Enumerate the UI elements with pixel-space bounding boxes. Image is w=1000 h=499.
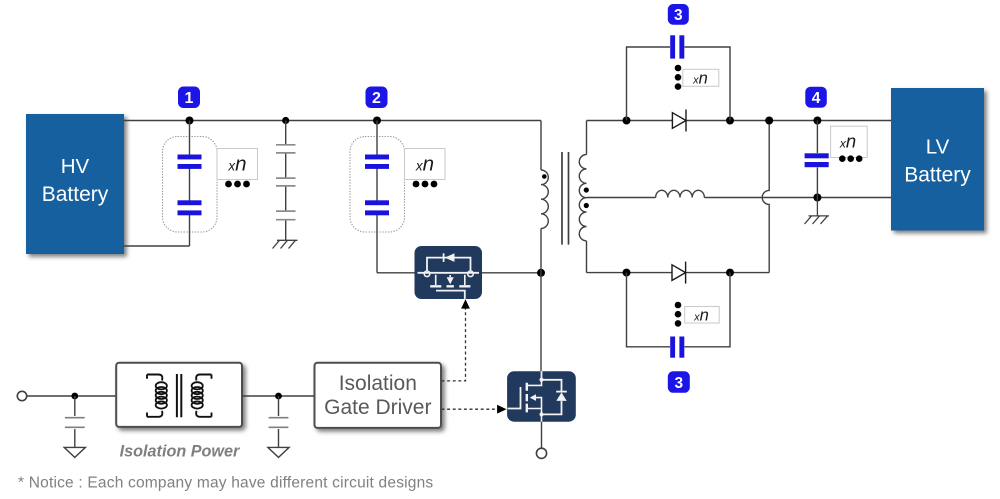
- isolation transformer T2 left coil: [147, 375, 167, 417]
- diode D2: [672, 262, 686, 284]
- transformer T1 secondary coil: [579, 155, 586, 241]
- label xn C3 top: [683, 69, 719, 87]
- svg-text:Isolation: Isolation: [339, 372, 417, 395]
- capacitor driver filter: [269, 396, 289, 447]
- label xn C2: [405, 149, 446, 188]
- gate driver U1 box: [315, 363, 442, 428]
- label xn C1: [217, 149, 258, 188]
- arrowhead Q1 gate: [461, 299, 470, 308]
- dashed gate wire Q1: [442, 308, 466, 381]
- transformer T1 secondary dots: [584, 187, 589, 192]
- svg-text:Gate Driver: Gate Driver: [324, 396, 431, 419]
- node junction Q1-T1: [537, 269, 545, 277]
- node 2 junction: [373, 117, 381, 125]
- transformer T1 secondary leads: [586, 121, 588, 273]
- node junction rail top right: [765, 117, 773, 125]
- svg-text:3: 3: [674, 7, 683, 24]
- svg-text:* Notice : Each company may h: * Notice : Each company may have differe…: [18, 475, 433, 492]
- diode D1: [672, 110, 686, 132]
- HV battery: [26, 114, 124, 254]
- dashed gate wire Q2: [442, 408, 498, 410]
- node junction D2 right: [726, 269, 734, 277]
- isolation transformer T2 right coil: [192, 375, 212, 417]
- wire T2 to driver: [242, 395, 315, 397]
- transformer T1 primary lead: [540, 121, 542, 171]
- isolation transformer T2 core: [177, 374, 181, 417]
- terminal input: [17, 391, 26, 400]
- badge 3 top: [668, 4, 689, 25]
- svg-text:4: 4: [812, 90, 821, 107]
- capacitor bank C1: [163, 121, 218, 247]
- svg-text:Battery: Battery: [904, 164, 971, 187]
- ground driver: [268, 447, 289, 457]
- ground input: [64, 447, 85, 457]
- node 4 junction: [813, 117, 821, 125]
- capacitor input filter: [65, 396, 85, 447]
- wire input: [26, 395, 116, 397]
- wire secondary top rail: [587, 120, 892, 122]
- svg-text:HV: HV: [61, 155, 90, 178]
- capacitor C3 bottom branch wires: [627, 273, 731, 347]
- node junction D1 right: [726, 117, 734, 125]
- node junction input cap: [71, 393, 78, 400]
- node junction D2 left: [623, 269, 631, 277]
- svg-text:LV: LV: [926, 136, 950, 159]
- svg-text:Isolation Power: Isolation Power: [120, 443, 241, 461]
- inductor L1: [656, 190, 705, 197]
- wire secondary bottom rail: [587, 272, 770, 274]
- dots C3 top: [675, 65, 682, 90]
- MOSFET Q2: [507, 371, 576, 422]
- badge 4: [805, 87, 827, 108]
- badge 2: [366, 87, 388, 109]
- arrowhead Q2 gate: [497, 405, 506, 414]
- wire vertical with hop: [762, 121, 769, 273]
- transformer T1 core: [562, 152, 569, 245]
- node junction D1 left: [623, 117, 631, 125]
- badge 3 bottom: [668, 371, 690, 393]
- node junction driver cap: [275, 393, 282, 400]
- dots C3 bottom: [675, 302, 682, 327]
- capacitor C3 top branch wires: [627, 47, 731, 121]
- capacitor C3 bottom plates: [670, 337, 684, 358]
- isolation transformer T2 box: [116, 363, 242, 427]
- ground Cin: [273, 240, 298, 248]
- label xn C3 bottom: [685, 306, 720, 324]
- wire Q1 row: [377, 272, 541, 274]
- capacitor bank C2: [350, 121, 405, 273]
- capacitor ladder Cin: [276, 121, 296, 241]
- LV battery: [891, 88, 984, 231]
- wire HV+ top rail: [124, 120, 541, 122]
- svg-text:3: 3: [674, 375, 683, 392]
- capacitor C3 top plates: [670, 35, 684, 58]
- capacitor C4: [805, 121, 829, 198]
- transformer T1 primary dot: [542, 174, 547, 179]
- transformer T1 primary bottom lead: [540, 228, 542, 371]
- MOSFET module Q1: [415, 246, 483, 299]
- label xn C4: [831, 126, 868, 162]
- node junction C4 bottom: [813, 194, 821, 202]
- wire center tap rail: [587, 197, 892, 199]
- svg-text:2: 2: [372, 90, 381, 107]
- node junction Cin: [282, 117, 289, 124]
- svg-text:1: 1: [185, 90, 194, 107]
- ground C4: [805, 198, 830, 225]
- transformer T1 primary coil: [541, 170, 548, 228]
- wire Q2 source: [541, 422, 543, 448]
- wire HV- bottom: [124, 245, 190, 247]
- terminal Q2: [536, 448, 546, 458]
- badge 1: [178, 87, 200, 109]
- node 1 junction: [186, 117, 194, 125]
- svg-text:Battery: Battery: [42, 183, 109, 206]
